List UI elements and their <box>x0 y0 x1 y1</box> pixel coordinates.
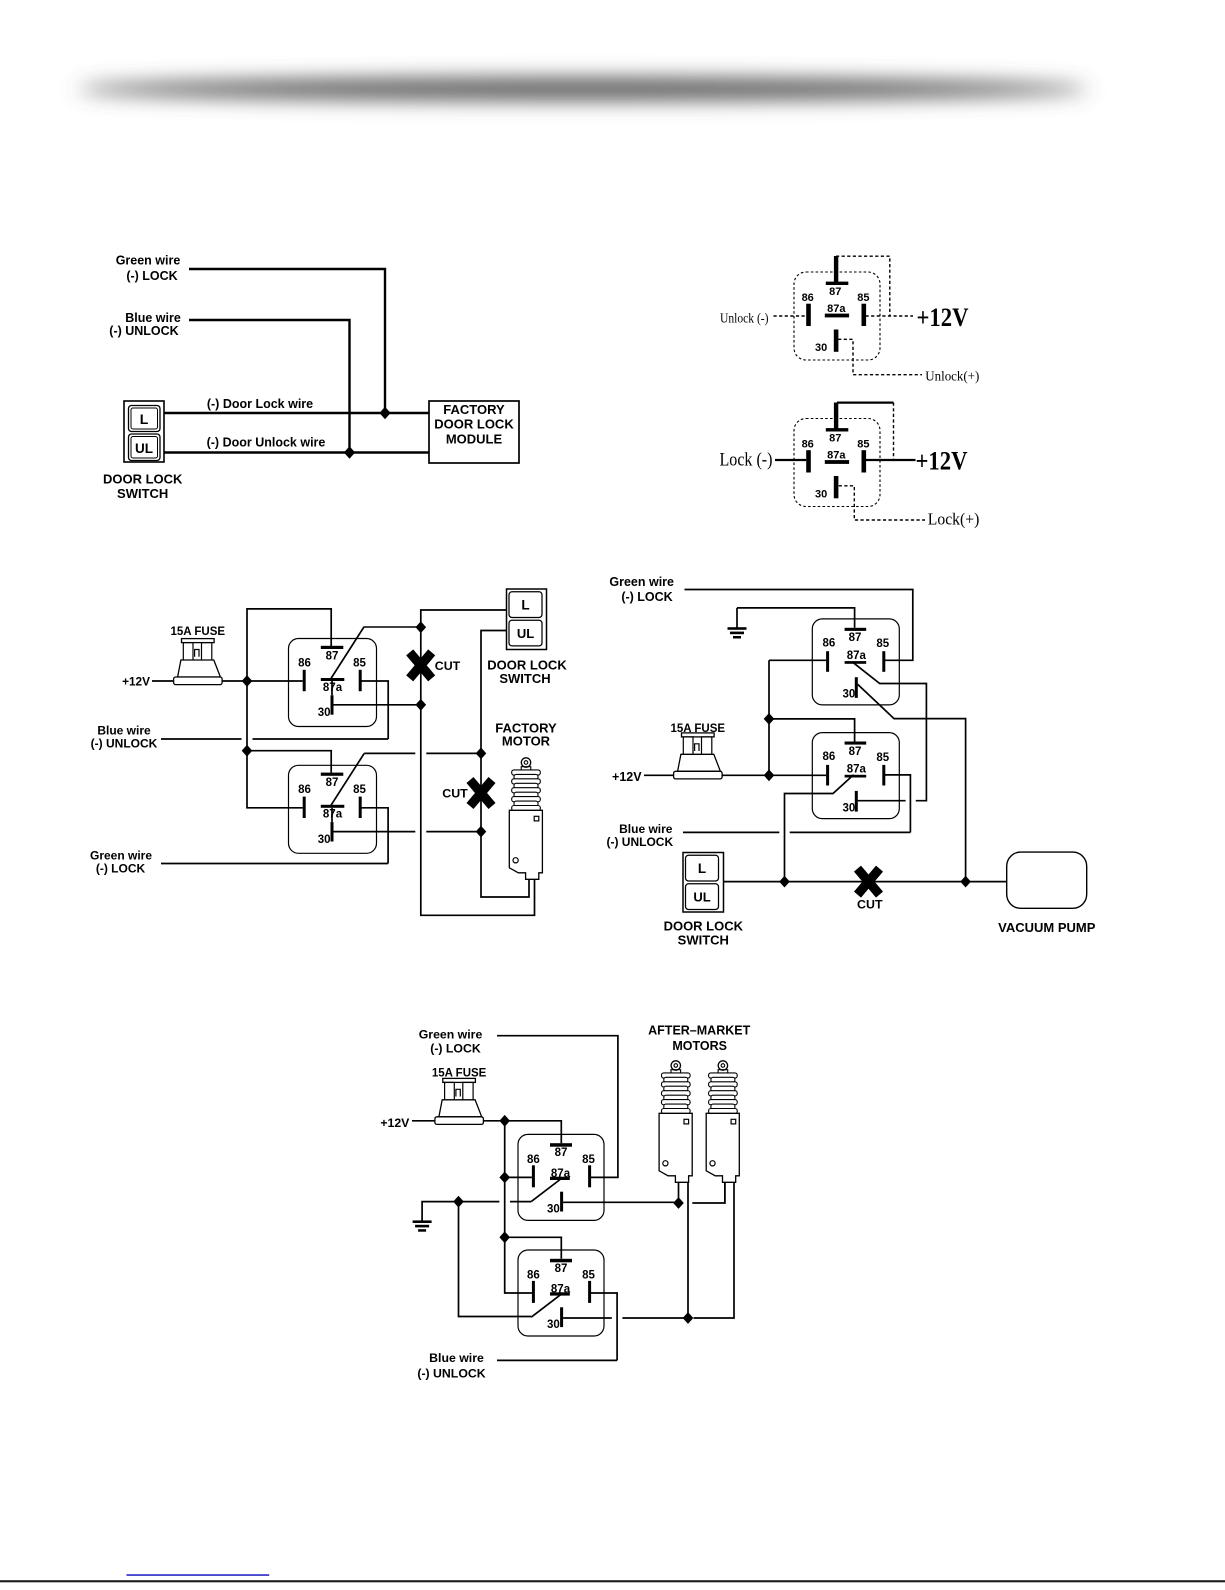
svg-text:+12V: +12V <box>380 1116 410 1130</box>
wire feed to relay K2 pin 87 <box>247 751 331 773</box>
wire K2 arm to UL line <box>364 752 415 754</box>
svg-text:Blue wire: Blue wire <box>429 1351 484 1365</box>
svg-text:UL: UL <box>517 626 534 641</box>
door lock switch S2 <box>507 589 547 650</box>
svg-text:87: 87 <box>829 432 841 444</box>
svg-text:Green wire: Green wire <box>419 1027 483 1041</box>
wire K6 85 down to blue (D5) <box>591 1293 617 1360</box>
wire green to relay K3 85 <box>685 590 913 661</box>
junction bus lower <box>764 769 775 781</box>
label Blue wire (-) UNLOCK (D5) <box>417 1351 485 1381</box>
wire K3 arm 87a diagonal <box>854 663 927 801</box>
svg-text:DOOR LOCK: DOOR LOCK <box>434 417 514 432</box>
svg-text:87a: 87a <box>847 764 867 776</box>
footer link underline <box>127 1574 270 1576</box>
svg-text:87: 87 <box>555 1263 568 1275</box>
junction lock <box>379 407 390 419</box>
junction bus upper <box>764 713 775 725</box>
wire feed to K6 86 <box>505 1237 532 1293</box>
wire motor1 right pin <box>687 1183 689 1318</box>
wire lock- to 86 <box>775 459 806 461</box>
footer rule <box>0 1580 1225 1582</box>
svg-text:86: 86 <box>527 1269 540 1281</box>
svg-text:86: 86 <box>298 657 311 669</box>
wire +12V to fuse (D4) <box>644 774 674 776</box>
wire K1 30 to cut line <box>333 704 421 706</box>
svg-text:(-) LOCK: (-) LOCK <box>430 1042 481 1056</box>
svg-text:85: 85 <box>353 657 366 669</box>
scan shadow ellipse <box>78 78 1088 100</box>
wire ground bus to K6 arm <box>459 1202 532 1317</box>
svg-text:85: 85 <box>857 292 869 304</box>
label Blue wire (-) UNLOCK <box>91 724 158 751</box>
pin 87a <box>825 450 849 464</box>
svg-text:(-) UNLOCK: (-) UNLOCK <box>109 324 178 338</box>
after-market motor 1 <box>659 1061 692 1183</box>
junction motor unlock <box>683 1312 694 1324</box>
junction 30 K2 <box>476 826 487 838</box>
svg-text:30: 30 <box>547 1203 560 1215</box>
svg-text:L: L <box>698 861 706 876</box>
svg-text:AFTER–MARKET: AFTER–MARKET <box>648 1023 750 1037</box>
wire +12V top feed to relay K1 pin 87 <box>247 609 331 681</box>
svg-text:MOTOR: MOTOR <box>502 734 551 749</box>
junction 30 K1 <box>416 699 427 711</box>
wire L contact to cut line down to factory motor <box>421 610 535 915</box>
svg-text:FACTORY: FACTORY <box>443 402 505 417</box>
wire green lock to junction <box>189 269 385 413</box>
wire green to relay K5 85 <box>497 1036 618 1178</box>
wire blue unlock line <box>161 738 242 740</box>
junction 86 K5 <box>499 1172 510 1184</box>
wire K4 85 down to blue <box>885 775 910 833</box>
svg-text:(-) Door Lock wire: (-) Door Lock wire <box>207 397 313 411</box>
wire blue line (D4) <box>683 831 779 833</box>
relay K4 <box>812 733 899 819</box>
svg-text:Green wire: Green wire <box>609 575 674 589</box>
ground stem <box>736 608 738 628</box>
svg-text:CUT: CUT <box>857 898 883 912</box>
svg-text:(-) LOCK: (-) LOCK <box>96 862 146 876</box>
svg-text:(-) UNLOCK: (-) UNLOCK <box>417 1367 485 1381</box>
svg-text:+12V: +12V <box>916 447 968 476</box>
label Green wire (-) LOCK <box>90 849 152 876</box>
junction +12V top <box>242 675 253 687</box>
svg-text:MOTORS: MOTORS <box>672 1039 727 1053</box>
svg-text:87a: 87a <box>827 450 846 462</box>
wire motor2 right pin <box>694 1183 735 1318</box>
svg-text:Lock(+): Lock(+) <box>928 510 980 529</box>
svg-text:Blue wire: Blue wire <box>125 311 181 325</box>
wire blue line (D5) <box>497 1359 617 1361</box>
wire blue unlock to junction <box>189 320 350 453</box>
svg-text:85: 85 <box>876 638 889 650</box>
svg-text:MODULE: MODULE <box>446 431 503 446</box>
svg-text:87: 87 <box>326 650 339 662</box>
svg-text:CUT: CUT <box>442 787 468 801</box>
relay K5 <box>518 1134 604 1220</box>
svg-text:Green wire: Green wire <box>90 849 152 863</box>
svg-text:30: 30 <box>547 1319 560 1331</box>
pin 86 <box>802 439 814 473</box>
wire 87 jumper to +12V line <box>836 256 890 316</box>
wire +12V to fuse (D5) <box>412 1120 435 1122</box>
wire motor1 left pin <box>678 1183 680 1203</box>
wire 85 to +12V <box>866 315 914 317</box>
wire fuse to relay K5 87 <box>483 1121 561 1143</box>
svg-text:85: 85 <box>353 784 366 796</box>
cut mark X lower <box>442 780 492 806</box>
svg-text:86: 86 <box>527 1154 540 1166</box>
wire K2 85 to green wire <box>360 808 388 864</box>
svg-text:87: 87 <box>555 1147 568 1159</box>
wire 85 to +12V <box>866 459 916 461</box>
factory door lock module <box>429 401 519 463</box>
svg-text:86: 86 <box>802 292 814 304</box>
wire 30 to lock+ <box>839 486 925 520</box>
svg-text:15A FUSE: 15A FUSE <box>171 626 226 638</box>
ground <box>728 627 747 638</box>
wire bus down (D5) <box>504 1121 506 1238</box>
svg-text:86: 86 <box>823 751 836 763</box>
label DOOR LOCK SWITCH (S2) <box>487 658 567 687</box>
wire K2 30 to UL line <box>333 831 415 833</box>
svg-text:VACUUM PUMP: VACUUM PUMP <box>998 920 1096 935</box>
relay body <box>794 419 880 507</box>
wire K6 30 to motors <box>563 1317 612 1319</box>
wire 87 jumper to +12V line <box>837 401 894 403</box>
junction +12V bottom <box>242 745 253 757</box>
wire 30 to unlock+ <box>838 339 922 374</box>
label Blue wire (-) UNLOCK <box>109 311 181 338</box>
svg-text:(-) LOCK: (-) LOCK <box>126 269 177 283</box>
wire feed to relay K4 87 <box>769 719 855 742</box>
svg-text:87: 87 <box>849 746 862 758</box>
label DOOR LOCK SWITCH (S3) <box>664 919 744 948</box>
wire green lock line <box>161 863 388 865</box>
svg-text:Unlock(+): Unlock(+) <box>925 368 979 383</box>
wire motor2 left pin <box>692 1183 725 1203</box>
svg-text:Lock (-): Lock (-) <box>720 450 773 471</box>
wire K4 30 to corner <box>858 800 906 802</box>
svg-text:DOOR LOCK: DOOR LOCK <box>664 919 744 934</box>
svg-text:86: 86 <box>298 784 311 796</box>
relay K1 <box>289 627 377 727</box>
svg-text:UL: UL <box>693 890 710 905</box>
wire K5 30 to motors <box>563 1201 678 1203</box>
label FACTORY MOTOR <box>495 720 557 748</box>
svg-text:86: 86 <box>802 439 814 451</box>
pin 87 <box>826 256 849 298</box>
pin 87 <box>826 403 849 445</box>
svg-text:Unlock (-): Unlock (-) <box>720 312 769 327</box>
wire left bus 86 K3 <box>769 659 826 661</box>
svg-text:(-) LOCK: (-) LOCK <box>621 590 672 604</box>
cut mark X pump line <box>857 869 883 912</box>
wire door unlock <box>164 451 429 453</box>
svg-text:CUT: CUT <box>435 659 461 673</box>
junction feed K6 <box>499 1231 510 1243</box>
svg-text:+12V: +12V <box>612 770 642 784</box>
svg-text:30: 30 <box>815 489 827 501</box>
wire K1 arm to cut line <box>364 626 421 628</box>
pin 85 <box>857 292 869 326</box>
cut mark X upper <box>410 652 461 678</box>
svg-text:Green wire: Green wire <box>116 253 181 267</box>
svg-text:+12V: +12V <box>917 303 969 332</box>
pin 85 <box>857 439 869 473</box>
pin 30 <box>815 476 838 501</box>
svg-text:86: 86 <box>823 638 836 650</box>
wire UL contact down to factory motor <box>481 631 529 898</box>
svg-text:SWITCH: SWITCH <box>678 932 729 947</box>
wire feed to relay K2 pin 86 <box>247 751 303 808</box>
wire to K5 86 <box>505 1176 532 1178</box>
wire K1 85 to blue wire <box>360 681 389 739</box>
svg-text:(-) UNLOCK: (-) UNLOCK <box>91 736 158 750</box>
svg-text:(-) UNLOCK: (-) UNLOCK <box>606 835 673 849</box>
wire ground stem (D5) <box>422 1202 458 1221</box>
label Green wire (-) LOCK <box>116 253 181 283</box>
ground <box>413 1220 432 1231</box>
door lock switch S3 <box>683 853 724 913</box>
factory motor <box>509 758 542 880</box>
svg-text:85: 85 <box>876 752 889 764</box>
svg-text:87: 87 <box>829 286 841 298</box>
after-market motor 2 <box>706 1061 739 1183</box>
wire switch to vacuum pump <box>724 881 1007 883</box>
svg-text:30: 30 <box>843 689 856 701</box>
wire fuse to relay K4 86 <box>722 774 826 776</box>
svg-text:30: 30 <box>318 707 331 719</box>
wire door lock <box>164 412 429 414</box>
door lock switch S1 <box>124 401 164 462</box>
junction unlock <box>344 446 355 458</box>
svg-text:30: 30 <box>843 802 856 814</box>
svg-text:85: 85 <box>582 1154 595 1166</box>
junction +12V (D5) <box>499 1115 510 1127</box>
wire K3 30 arm diagonal <box>858 684 966 881</box>
pin 30 <box>815 330 838 355</box>
pin 87a <box>825 303 849 317</box>
svg-text:L: L <box>140 411 149 427</box>
svg-text:87: 87 <box>849 632 862 644</box>
svg-text:SWITCH: SWITCH <box>117 486 168 501</box>
svg-text:30: 30 <box>815 342 827 354</box>
junction arm K2 <box>476 748 487 760</box>
wire unlock- to 86 <box>774 315 807 317</box>
label Green wire (-) LOCK (D4) <box>609 575 674 604</box>
svg-text:87a: 87a <box>827 303 846 315</box>
junction pump line <box>960 876 971 888</box>
label Blue wire (-) UNLOCK (D4) <box>606 822 673 849</box>
junction motor lock <box>673 1197 684 1209</box>
svg-text:30: 30 <box>318 834 331 846</box>
vacuum pump <box>1007 852 1087 908</box>
wire ground to relay K3 87 <box>737 608 855 628</box>
wire feed to K6 87 <box>505 1237 562 1259</box>
label AFTER-MARKET MOTORS <box>648 1023 750 1053</box>
wire K4 arm diagonal down-left <box>785 775 854 882</box>
label DOOR LOCK SWITCH <box>103 472 183 501</box>
label Green wire (-) LOCK (D5) <box>419 1027 483 1055</box>
junction arm K4 line <box>779 876 790 888</box>
wire left bus vertical <box>768 660 770 775</box>
svg-text:UL: UL <box>135 441 153 456</box>
svg-text:85: 85 <box>582 1269 595 1281</box>
relay K2 <box>289 753 377 853</box>
fuse 15A FUSE <box>171 626 226 685</box>
ground junction <box>453 1196 464 1208</box>
svg-text:L: L <box>521 598 529 613</box>
fuse 15A FUSE <box>671 723 726 779</box>
pin 86 <box>802 292 814 326</box>
svg-text:DOOR LOCK: DOOR LOCK <box>103 472 183 487</box>
svg-text:SWITCH: SWITCH <box>499 671 550 686</box>
relay body <box>794 272 880 360</box>
wire fuse to relay K1 pin 86 <box>222 680 303 682</box>
wire +12V to fuse <box>152 680 174 682</box>
svg-text:+12V: +12V <box>122 675 150 689</box>
svg-text:15A FUSE: 15A FUSE <box>432 1068 487 1080</box>
relay K6 <box>518 1250 604 1336</box>
svg-text:85: 85 <box>857 439 869 451</box>
svg-text:87: 87 <box>326 777 339 789</box>
relay K3 <box>812 619 899 705</box>
wire +12V down branch <box>246 681 248 751</box>
junction arm K1 <box>416 621 427 633</box>
fuse 15A FUSE <box>432 1068 487 1125</box>
svg-text:87a: 87a <box>847 650 867 662</box>
svg-text:(-) Door Unlock wire: (-) Door Unlock wire <box>207 436 326 450</box>
wire K5 arm to ground <box>510 1201 531 1203</box>
